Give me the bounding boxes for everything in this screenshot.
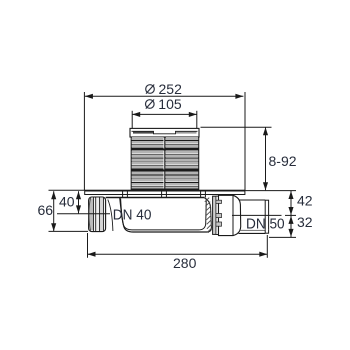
svg-text:280: 280 [173, 255, 197, 271]
svg-text:40: 40 [59, 193, 75, 209]
svg-text:105: 105 [158, 96, 182, 112]
svg-text:32: 32 [297, 214, 313, 230]
svg-text:DN 40: DN 40 [113, 208, 152, 224]
svg-text:66: 66 [38, 202, 54, 218]
svg-text:8-92: 8-92 [269, 153, 297, 169]
svg-text:DN 50: DN 50 [246, 217, 285, 233]
svg-text:42: 42 [297, 192, 313, 208]
svg-text:252: 252 [159, 81, 183, 97]
